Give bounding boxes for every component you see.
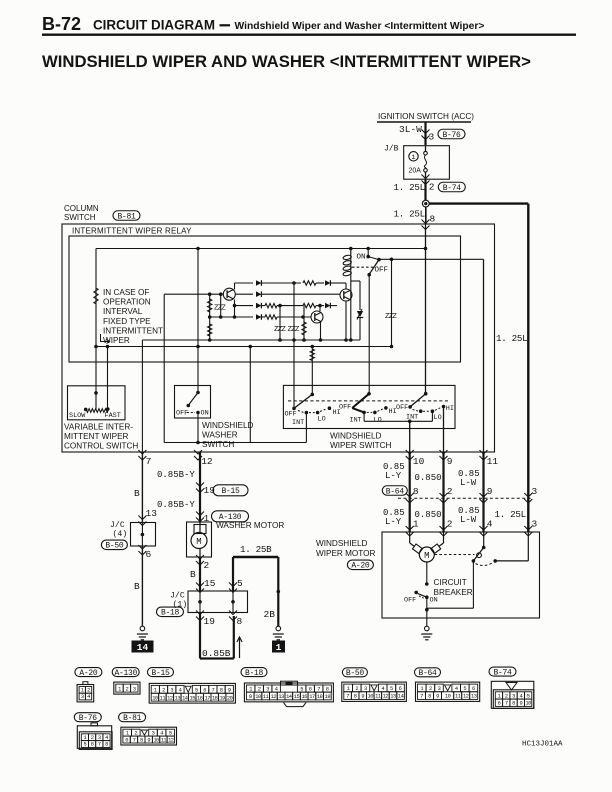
relay coil [350,249,352,256]
svg-text:J/B: J/B [384,145,399,154]
1.25B feed wire [232,557,234,591]
switch 3 HI output [443,407,445,453]
svg-text:B-72: B-72 [42,14,81,34]
transistor T1 [223,288,235,300]
diode [256,303,261,309]
svg-text:3: 3 [170,688,173,694]
splice joint [422,200,429,207]
svg-text:B-50: B-50 [105,542,124,551]
wire pin10 down [409,452,411,532]
junction [196,441,200,445]
svg-text:10: 10 [368,694,374,700]
svg-text:5: 5 [237,578,243,589]
svg-text:5: 5 [527,693,530,699]
svg-text:B-50: B-50 [346,669,365,678]
svg-text:B-74: B-74 [443,184,462,193]
svg-text:16: 16 [301,694,307,700]
crossing pin 8 [229,611,237,621]
svg-text:OFF: OFF [375,267,389,275]
svg-text:1: 1 [411,154,415,162]
connector B-18 grid [244,683,333,702]
svg-text:B-18: B-18 [161,609,180,618]
svg-text:WINDSHIELD: WINDSHIELD [202,421,253,430]
resistor [310,349,314,361]
connector ref B-50 [101,540,127,550]
connector B-81 grid [121,727,177,745]
svg-text:WASHER MOTOR: WASHER MOTOR [216,521,284,530]
svg-text:10: 10 [413,456,425,467]
diode [256,314,261,320]
diode [325,303,330,309]
svg-text:3: 3 [429,132,435,143]
wire pin11 down [482,452,484,532]
pin 10 wire [409,421,411,452]
svg-text:2: 2 [447,519,453,530]
svg-text:9: 9 [361,694,364,700]
wire to ground [426,597,428,618]
contact pivot [377,258,381,262]
connector B-50 [342,668,367,677]
svg-text:FAST: FAST [105,412,121,420]
svg-text:B-74: B-74 [493,669,512,678]
svg-text:5: 5 [84,742,87,748]
svg-text:B-81: B-81 [123,714,142,723]
svg-text:2: 2 [355,686,358,692]
pivot 1 [311,393,315,397]
svg-text:B-18: B-18 [245,669,264,678]
crossing 2 [440,493,448,503]
pivot 2 [367,392,371,396]
svg-text:BREAKER: BREAKER [434,588,473,597]
crossing 3 [524,493,532,503]
svg-text:B-81: B-81 [117,212,136,221]
resistor [208,299,212,312]
T1 collector riser [234,283,236,290]
crossing pin 10 [406,450,414,460]
row R1 [235,282,254,284]
crossing into J/C(4) [138,516,146,526]
connector ref B-74 [438,182,465,192]
connector A-20 [75,668,102,677]
park switch output wire [472,561,474,608]
wire [209,294,211,340]
svg-text:10: 10 [525,701,531,707]
svg-text:7: 7 [505,701,508,707]
left sense wire with resistor [95,249,97,394]
contact INT3 [419,409,423,413]
wire from motor [426,562,428,584]
svg-text:12: 12 [167,695,173,701]
connector ref B-15 [213,485,248,496]
svg-text:1: 1 [126,730,129,736]
svg-text:INTERVAL: INTERVAL [103,307,143,316]
svg-text:LO: LO [434,414,442,422]
svg-text:INT: INT [350,417,362,425]
brush blocks [413,544,423,554]
svg-text:15: 15 [294,694,300,700]
connector B-74 grid [493,690,534,709]
svg-text:CIRCUIT DIAGRAM: CIRCUIT DIAGRAM [93,18,215,33]
crossing 9 [480,493,488,503]
connector ref A-130 [212,511,249,522]
junction connector J/C (4) [131,523,156,547]
connector B-64 grid [416,682,480,701]
svg-text:4: 4 [455,686,458,692]
svg-text:7: 7 [317,686,320,692]
svg-text:2: 2 [429,182,435,193]
svg-text:SLOW: SLOW [69,412,86,420]
detent dashed line [288,400,450,402]
svg-text:1: 1 [347,686,350,692]
connector ref B-76 [438,129,465,139]
svg-text:2B: 2B [264,609,276,620]
svg-text:9: 9 [487,486,493,497]
crossing pin 7 [138,450,146,460]
svg-text:17: 17 [309,694,315,700]
svg-text:B-64: B-64 [418,669,437,678]
resistor [208,324,212,336]
svg-text:4: 4 [487,519,493,530]
svg-text:1: 1 [249,686,252,692]
svg-text:3: 3 [364,686,367,692]
svg-text:4: 4 [179,688,182,694]
svg-text:14: 14 [286,694,292,700]
connector ref A-20 [347,560,373,570]
svg-text:SWITCH: SWITCH [64,213,96,222]
wire [279,306,281,340]
crossing pin 1 [406,526,414,536]
svg-text:ON: ON [201,410,209,418]
svg-text:8: 8 [237,616,243,627]
svg-text:1. 25L: 1. 25L [394,209,425,220]
arm 2 (thick) [352,394,369,408]
svg-text:2: 2 [204,560,210,571]
svg-text:10: 10 [152,695,158,701]
svg-text:B-64: B-64 [386,487,405,496]
junction [196,247,200,251]
svg-text:1. 25B: 1. 25B [240,544,272,555]
svg-text:14: 14 [137,642,149,653]
svg-text:10: 10 [445,694,451,700]
svg-text:1: 1 [154,688,157,694]
svg-text:17: 17 [204,695,210,701]
svg-text:3: 3 [152,730,155,736]
svg-text:7: 7 [346,694,349,700]
crossing out of J/C(4) [138,545,146,555]
svg-text:11: 11 [160,695,166,701]
2B wire to ground [277,557,279,626]
transistor T2 [311,311,323,323]
svg-text:12: 12 [463,694,469,700]
svg-text:11: 11 [161,737,167,743]
svg-text:VARIABLE INTER-: VARIABLE INTER- [64,423,133,432]
crossing pin 9 [440,450,448,460]
svg-text:2: 2 [258,686,261,692]
svg-text:0.85B: 0.85B [202,648,231,659]
wire pin7 to J/C(4) [141,452,143,523]
svg-text:9: 9 [519,701,522,707]
bottom rail B1 [142,339,360,341]
svg-text:19: 19 [325,694,331,700]
potentiometer track [85,409,108,413]
wire to potentiometer FAST end [107,347,109,410]
svg-text:WIPER SWITCH: WIPER SWITCH [330,441,391,450]
connector A-130 [112,668,139,677]
svg-text:6: 6 [91,742,94,748]
park contact B [493,559,497,563]
svg-text:6: 6 [472,686,475,692]
svg-text:7: 7 [420,694,423,700]
svg-text:HC13J01AA: HC13J01AA [522,741,563,749]
svg-text:6: 6 [146,549,152,560]
junction [349,247,353,251]
resistor [94,288,98,304]
svg-text:8: 8 [512,701,515,707]
breaker ON contact [425,595,429,599]
pin3 wire [527,532,529,561]
svg-text:IN CASE OF: IN CASE OF [103,288,149,297]
svg-text:9: 9 [447,456,453,467]
svg-text:19: 19 [204,616,216,627]
svg-text:2: 2 [91,735,94,741]
connector ref B-64 [382,486,407,496]
svg-text:WASHER: WASHER [202,431,238,440]
svg-text:19: 19 [219,695,225,701]
svg-text:20A: 20A [409,168,422,175]
wire down to wiper switch OFF [293,283,295,408]
svg-text:13: 13 [146,508,158,519]
ground [140,626,145,631]
svg-text:13: 13 [471,694,477,700]
thick 1.25L wire down right side [527,204,529,532]
svg-text:OFF: OFF [339,404,351,412]
svg-text:OFF: OFF [285,411,297,419]
contact HI1 [328,406,332,410]
svg-text:1. 25L: 1. 25L [394,182,425,193]
crossing pin 19 [196,483,204,493]
svg-text:11: 11 [455,694,461,700]
svg-text:0.850: 0.850 [415,473,442,483]
relay output wire [379,258,484,260]
pivot [196,391,200,395]
svg-text:4: 4 [160,730,163,736]
svg-text:4: 4 [275,686,278,692]
dashed link from motor [435,554,475,556]
contact LO2 [373,411,377,415]
ground [276,626,281,631]
svg-text:7: 7 [98,742,101,748]
svg-text:B-76: B-76 [79,714,98,723]
svg-text:1: 1 [84,735,87,741]
wire to T2 [319,306,321,311]
windshield washer switch box [175,386,211,419]
svg-text:HI: HI [446,405,454,413]
junction [425,608,429,612]
svg-text:6: 6 [498,701,501,707]
svg-text:6: 6 [309,686,312,692]
row R3 [235,305,254,307]
zener diode branch [351,280,360,282]
0.85B ground loop wire [199,613,201,659]
washer interlock wire from R2 [163,294,165,442]
svg-text:15: 15 [190,695,196,701]
washer motor [187,522,212,557]
svg-text:ZZZ: ZZZ [214,305,226,313]
column switch box [62,224,495,452]
svg-text:5: 5 [390,686,393,692]
wire to T3 [345,283,347,289]
switch arm [188,393,198,406]
diode [256,280,261,286]
svg-text:3: 3 [133,686,136,692]
arm 1 [294,394,312,408]
svg-text:1. 25L: 1. 25L [495,509,526,520]
svg-text:1: 1 [420,686,423,692]
contact INT2 [362,411,366,415]
intermittent wiper relay box [69,236,461,362]
svg-text:B-76: B-76 [442,131,461,140]
connector B-18 [241,668,267,677]
connector A-130 grid [114,682,140,694]
wire to potentiometer wiper [95,393,97,409]
crossing into column switch pin 8 [422,220,430,230]
pin 8 wire down to wiper switch [425,224,427,394]
svg-text:0.85B-Y: 0.85B-Y [157,500,195,510]
wire [345,301,347,340]
header rule [42,34,576,36]
svg-text:J/C: J/C [110,520,125,530]
motor armature [409,532,411,543]
corner mark with arrow [101,334,111,343]
ON contact feed [367,249,369,257]
svg-text:CIRCUIT: CIRCUIT [434,578,467,587]
crossing pin 19 [196,611,204,621]
svg-text:5: 5 [195,688,198,694]
svg-text:ZZZ: ZZZ [274,326,286,334]
connector ref B-81 [113,211,140,221]
contact LO3 [431,409,435,413]
sense rail wire [96,346,392,348]
junction [424,247,428,251]
contact ON [366,255,370,259]
svg-text:11: 11 [263,694,269,700]
svg-text:IGNITION SWITCH (ACC): IGNITION SWITCH (ACC) [378,112,474,121]
svg-text:3L-W: 3L-W [399,124,422,135]
svg-text:LO: LO [374,417,382,425]
junction [94,391,98,395]
svg-text:2: 2 [505,693,508,699]
svg-text:13: 13 [278,694,284,700]
thick feed wire to right [429,202,528,204]
svg-text:3: 3 [98,735,101,741]
svg-text:1. 25L: 1. 25L [496,333,527,344]
direction arrow [239,637,241,658]
svg-text:10: 10 [153,737,159,743]
svg-text:7: 7 [211,688,214,694]
svg-text:12: 12 [201,456,213,467]
svg-text:B-15: B-15 [221,487,240,496]
svg-text:12: 12 [383,694,389,700]
svg-text:2: 2 [87,688,90,694]
connector B-76 grid [79,732,112,750]
svg-text:WINDSHIELD WIPER AND WASHER: WINDSHIELD WIPER AND WASHER <INTERMITTEN… [42,52,531,71]
connector A-20 grid [77,685,94,702]
junction block J/B [404,146,450,180]
svg-text:1: 1 [413,519,419,530]
svg-text:14: 14 [182,695,188,701]
svg-text:MITTENT WIPER: MITTENT WIPER [64,432,129,441]
connector B-64 [415,668,441,677]
contact OFF3 [408,405,412,409]
B-18 keyway [281,681,298,685]
svg-text:3: 3 [532,519,538,530]
svg-text:8: 8 [105,742,108,748]
resistor [303,303,316,307]
svg-text:CONTROL SWITCH: CONTROL SWITCH [64,442,138,451]
park contact A [472,559,476,563]
svg-text:8: 8 [430,214,436,225]
svg-text:L-W: L-W [460,478,477,488]
pivot 3 [424,392,428,396]
breaker arm [418,594,427,598]
svg-text:20: 20 [227,695,233,701]
svg-text:WINDSHIELD: WINDSHIELD [330,432,381,441]
wire 1.25L pin 8 [425,207,427,224]
svg-text:B-15: B-15 [151,669,170,678]
svg-text:LO: LO [318,416,326,424]
crossing pin 2 [196,555,204,565]
svg-text:6: 6 [399,686,402,692]
svg-text:16: 16 [197,695,203,701]
pot end SLOW [84,408,88,412]
wire from contact to pin 11 [483,259,485,452]
svg-text:1: 1 [498,693,501,699]
svg-text:ON: ON [357,254,366,262]
svg-text:9: 9 [249,694,252,700]
svg-text:OFF: OFF [396,404,408,412]
svg-text:COLUMN: COLUMN [64,204,99,213]
intermediate connector dashed line [398,497,533,499]
svg-text:5: 5 [169,730,172,736]
svg-text:9: 9 [228,688,231,694]
svg-text:18: 18 [317,694,323,700]
crossing pin 3 [524,526,532,536]
row R4 [210,316,253,318]
svg-text:2: 2 [134,730,137,736]
svg-text:3: 3 [512,693,515,699]
svg-text:3: 3 [266,686,269,692]
svg-text:3: 3 [81,694,84,700]
svg-text:7: 7 [146,456,152,467]
transistor T3 [340,289,352,301]
junction [292,281,296,285]
svg-text:(4): (4) [113,529,128,539]
svg-text:L-Y: L-Y [385,471,402,481]
svg-text:7: 7 [133,737,136,743]
breaker OFF contact [414,591,418,595]
crossing pin 4 [480,526,488,536]
svg-text:1: 1 [81,688,84,694]
connector B-15 [148,668,174,677]
svg-text:0.85B-Y: 0.85B-Y [157,470,195,480]
junction [390,258,394,262]
connector crossing pin 3 [422,130,430,140]
connector B-74 [489,667,516,676]
wire 3L-W from ignition switch [424,122,426,145]
park switch arm [473,548,483,561]
wire [220,294,222,317]
svg-text:A-20: A-20 [351,562,370,571]
